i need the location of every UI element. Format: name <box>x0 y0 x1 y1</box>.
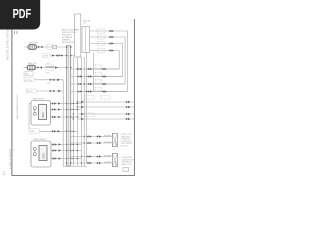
svg-text:REC: REC <box>41 153 45 159</box>
svg-text:MTR: MTR <box>116 141 118 146</box>
svg-text:ANTI-LOCK: ANTI-LOCK <box>122 163 132 166</box>
svg-text:REC: REC <box>41 112 45 118</box>
svg-text:IND LP: IND LP <box>27 91 34 93</box>
svg-text:ABS RELAY: ABS RELAY <box>33 98 45 101</box>
svg-text:IG SW: IG SW <box>43 56 49 58</box>
svg-text:MODULATOR: MODULATOR <box>62 41 75 44</box>
svg-text:SKID CONTROL ECU ACT: SKID CONTROL ECU ACT <box>16 94 19 120</box>
svg-text:STP SW: STP SW <box>25 80 32 82</box>
svg-text:A: TRAC ACTUATOR: A: TRAC ACTUATOR <box>9 149 12 169</box>
svg-text:PDF: PDF <box>13 6 32 21</box>
svg-text:ABS SOL: ABS SOL <box>28 62 38 65</box>
svg-text:NO.1: NO.1 <box>47 63 51 65</box>
svg-text:ABS MTR: ABS MTR <box>29 42 39 45</box>
svg-text:ABS, VSC & TRAC SYSTEM: ABS, VSC & TRAC SYSTEM <box>6 29 9 60</box>
svg-text:6 ECU-IG: 6 ECU-IG <box>121 146 129 148</box>
svg-text:TRAC: TRAC <box>30 130 36 133</box>
svg-text:4: 4 <box>13 150 14 152</box>
svg-text:SOL: SOL <box>46 72 50 74</box>
svg-text:MTR: MTR <box>116 161 118 166</box>
